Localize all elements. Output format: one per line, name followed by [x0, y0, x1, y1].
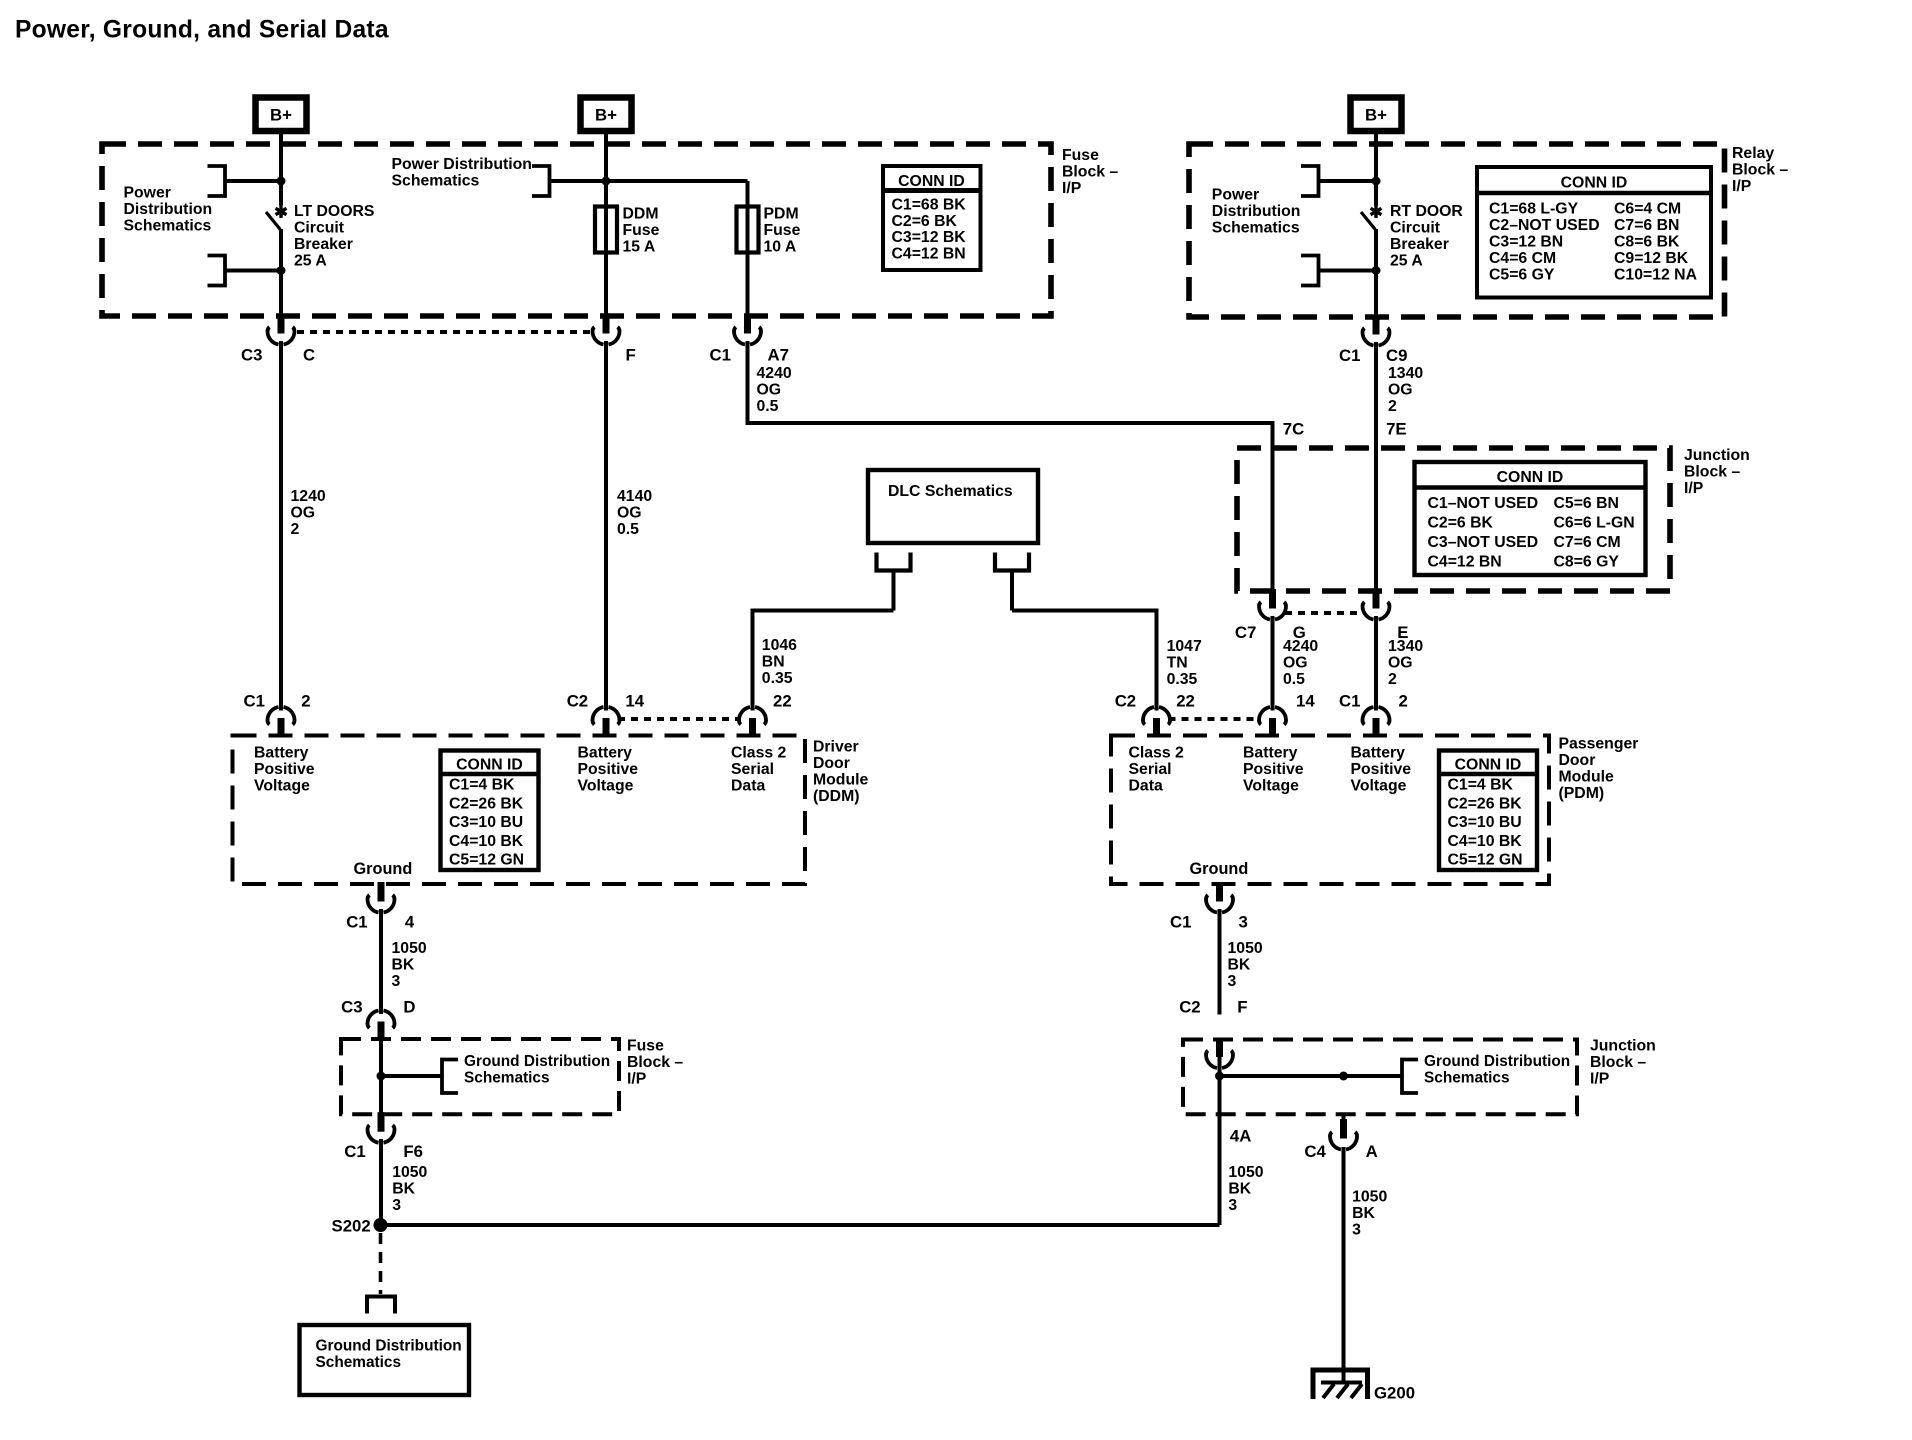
svg-text:PowerDistributionSchematics: PowerDistributionSchematics — [1212, 187, 1301, 237]
node DDM fuse feed junction — [602, 177, 611, 186]
connector C1/2 into DDM battery positive — [267, 707, 294, 738]
wire tap to ground distribution bracket — [381, 1074, 442, 1078]
node breaker top junction — [277, 177, 286, 186]
connector C1/A7 at fuse block (PDM fuse output) — [734, 314, 761, 345]
connector C2/14 into DDM battery positive — [592, 707, 619, 738]
ground G200 symbol — [1313, 1370, 1368, 1399]
wire through junction block (ground) — [1218, 1040, 1222, 1226]
fuse PDM 10A — [737, 207, 759, 253]
svg-text:C2: C2 — [1179, 998, 1200, 1017]
svg-text:C5=6 BNC6=6 L-GNC7=6 CMC8=6 GY: C5=6 BNC6=6 L-GNC7=6 CMC8=6 GY — [1554, 495, 1635, 571]
svg-text:G200: G200 — [1374, 1384, 1415, 1403]
connector C1/2 into PDM battery positive — [1362, 707, 1389, 738]
wire B+2 down through DDM fuse — [604, 131, 608, 316]
wire circuit 4140 from F to DDM — [604, 341, 608, 711]
svg-text:F: F — [1237, 998, 1247, 1017]
connector C2/F into junction block (ground) — [1206, 1038, 1233, 1069]
B+ terminal 1 (LT doors feed) — [256, 98, 307, 132]
svg-text:C1: C1 — [1339, 346, 1360, 365]
svg-text:PassengerDoorModule(PDM): PassengerDoorModule(PDM) — [1559, 736, 1639, 803]
svg-text:7E: 7E — [1386, 420, 1407, 439]
svg-text:S202: S202 — [332, 1217, 371, 1236]
wire S202 bus to PDM ground leg — [381, 1223, 1220, 1227]
connector 14 into PDM battery positive — [1259, 707, 1286, 738]
svg-text:1050BK3: 1050BK3 — [392, 940, 427, 990]
svg-text:1240OG2: 1240OG2 — [291, 488, 326, 538]
dotted connector tie G to E — [1285, 611, 1364, 615]
svg-text:FuseBlock –I/P: FuseBlock –I/P — [1062, 147, 1118, 197]
node breaker bottom junction — [277, 266, 286, 275]
svg-text:DLC Schematics: DLC Schematics — [888, 483, 1013, 500]
wire bracket to breaker bottom node — [225, 269, 281, 273]
svg-text:C7: C7 — [1235, 623, 1256, 642]
svg-text:4A: 4A — [1230, 1127, 1251, 1146]
wire B+3 down into relay block — [1374, 131, 1378, 206]
svg-text:1046BN0.35: 1046BN0.35 — [762, 637, 797, 687]
svg-text:BatteryPositiveVoltage: BatteryPositiveVoltage — [1243, 745, 1304, 795]
DLC Schematics box — [868, 470, 1038, 543]
fuse block I/P dashed enclosure (bottom left) — [341, 1039, 619, 1114]
svg-text:3: 3 — [1239, 913, 1248, 932]
wire circuit 1240 from C to DDM — [279, 341, 283, 711]
off-page bracket (power distribution, middle) — [532, 166, 550, 196]
svg-text:1050BK3: 1050BK3 — [1352, 1189, 1387, 1239]
svg-text:BatteryPositiveVoltage: BatteryPositiveVoltage — [1351, 745, 1412, 795]
connector C2/22 into PDM class 2 serial data — [1143, 707, 1170, 738]
connector 22 into DDM class 2 serial data — [739, 707, 766, 738]
dotted connector tie 22 to 14 (PDM) — [1169, 717, 1262, 721]
wire DLC left lead down — [892, 571, 896, 611]
svg-text:Ground DistributionSchematics: Ground DistributionSchematics — [316, 1338, 462, 1372]
svg-text:A: A — [1366, 1142, 1378, 1161]
svg-text:JunctionBlock –I/P: JunctionBlock –I/P — [1590, 1038, 1656, 1088]
wire circuit 1050 DDM ground down — [379, 909, 383, 1014]
svg-text:C1: C1 — [244, 692, 265, 711]
wire circuit 1047 horizontal — [1012, 609, 1157, 613]
wire through fuse block (ground) — [379, 1039, 383, 1114]
wire circuit 1050 PDM ground down — [1218, 909, 1222, 1015]
off-page stub to ground distribution schematics — [367, 1297, 395, 1314]
circuit breaker LT DOORS 25A - blade — [266, 212, 280, 230]
svg-text:LT DOORSCircuitBreaker25 A: LT DOORSCircuitBreaker25 A — [294, 203, 374, 270]
dotted connector tie 14 to 22 (DDM) — [618, 717, 741, 721]
svg-text:A7: A7 — [768, 346, 789, 365]
CONN ID table (fuse block I/P) — [883, 166, 981, 270]
connector C1/C9 at relay block (RT door circuit) — [1362, 315, 1389, 346]
CONN ID table (DDM) — [441, 751, 539, 871]
svg-text:14: 14 — [1296, 692, 1315, 711]
fuse DDM 15A — [595, 207, 617, 253]
node RT breaker top junction — [1372, 177, 1381, 186]
DLC left receptacle bracket — [877, 553, 911, 571]
svg-text:C1: C1 — [344, 1142, 365, 1161]
svg-text:Ground DistributionSchematics: Ground DistributionSchematics — [464, 1053, 610, 1087]
wire circuit 1340 E to PDM — [1374, 616, 1378, 711]
node RT breaker bottom junction — [1372, 266, 1381, 275]
off-page bracket ground distribution (bottom left) — [442, 1060, 458, 1094]
svg-text:1340OG2: 1340OG2 — [1388, 365, 1423, 415]
svg-text:4240OG0.5: 4240OG0.5 — [1283, 638, 1318, 688]
svg-text:FuseBlock –I/P: FuseBlock –I/P — [627, 1038, 683, 1088]
wire circuit 1050 to G200 — [1342, 1147, 1346, 1383]
svg-text:C9: C9 — [1386, 346, 1407, 365]
svg-text:Ground: Ground — [354, 860, 413, 878]
svg-text:C2: C2 — [1115, 692, 1136, 711]
svg-text:C1: C1 — [1170, 913, 1191, 932]
wire circuit 1046 down to DDM class 2 — [751, 609, 755, 711]
svg-text:C3: C3 — [341, 998, 362, 1017]
svg-text:CONN ID: CONN ID — [1561, 175, 1628, 192]
svg-text:CONN ID: CONN ID — [898, 173, 965, 190]
svg-text:1340OG2: 1340OG2 — [1388, 638, 1423, 688]
svg-text:DDMFuse15 A: DDMFuse15 A — [623, 206, 660, 256]
svg-text:22: 22 — [1176, 692, 1195, 711]
svg-text:4240OG0.5: 4240OG0.5 — [757, 365, 792, 415]
wire PDM fuse feed down — [746, 181, 750, 316]
svg-text:C2: C2 — [567, 692, 588, 711]
svg-text:4140OG0.5: 4140OG0.5 — [617, 488, 652, 538]
svg-text:C3: C3 — [241, 346, 262, 365]
wire bracket to DDM/PDM fuse feeds — [550, 179, 748, 183]
connector E at junction block — [1362, 589, 1389, 620]
wire circuit 4240 down from A7 — [746, 341, 750, 423]
svg-text:C6=4 CMC7=6 BNC8=6 BKC9=12 BKC: C6=4 CMC7=6 BNC8=6 BKC9=12 BKC10=12 NA — [1614, 201, 1697, 284]
node junction block ground tap left — [1215, 1072, 1224, 1081]
svg-text:1050BK3: 1050BK3 — [392, 1164, 427, 1214]
svg-text:C1: C1 — [346, 913, 367, 932]
wire B+1 down into fuse block — [279, 131, 283, 206]
svg-text:F: F — [626, 346, 636, 365]
junction block I/P dashed enclosure (middle right) — [1237, 448, 1670, 591]
svg-text:CONN ID: CONN ID — [1497, 469, 1564, 486]
svg-text:C4: C4 — [1304, 1142, 1326, 1161]
svg-text:B+: B+ — [270, 106, 292, 125]
B+ terminal 3 (RT door feed) — [1351, 98, 1402, 132]
connector C4/A out of junction block — [1330, 1119, 1357, 1150]
svg-text:BatteryPositiveVoltage: BatteryPositiveVoltage — [578, 745, 639, 795]
wire circuit 1340 down to junction block (7E) — [1374, 342, 1378, 591]
connector C3/C at fuse block (LT doors circuit) — [267, 314, 294, 345]
wire circuit 4240 G to PDM — [1271, 616, 1275, 711]
svg-text:B+: B+ — [595, 106, 617, 125]
svg-text:C1: C1 — [1339, 692, 1360, 711]
dashed wire S202 to ground distribution — [379, 1233, 383, 1294]
off-page bracket lower (right box) — [1301, 256, 1319, 286]
svg-text:PDMFuse10 A: PDMFuse10 A — [764, 206, 801, 256]
circuit breaker LT DOORS 25A - contact star — [276, 205, 287, 218]
junction block I/P dashed enclosure (bottom right) — [1183, 1040, 1577, 1115]
node junction block ground tap right — [1339, 1072, 1348, 1081]
splice S202 — [374, 1218, 388, 1232]
connector C1/F6 out of fuse block — [367, 1112, 394, 1143]
svg-text:RT DOORCircuitBreaker25 A: RT DOORCircuitBreaker25 A — [1390, 203, 1463, 270]
wire bracket to breaker top node — [225, 179, 281, 183]
svg-text:Power DistributionSchematics: Power DistributionSchematics — [392, 156, 532, 190]
svg-text:C1=4 BKC2=26 BKC3=10 BUC4=10 B: C1=4 BKC2=26 BKC3=10 BUC4=10 BKC5=12 GN — [1448, 777, 1523, 869]
wire circuit 4240 drop into junction block (7C) — [1271, 421, 1275, 591]
svg-text:C1: C1 — [710, 346, 731, 365]
svg-text:C1=68 L-GYC2–NOT USEDC3=12 BNC: C1=68 L-GYC2–NOT USEDC3=12 BNC4=6 CMC5=6… — [1489, 201, 1600, 284]
svg-text:DriverDoorModule(DDM): DriverDoorModule(DDM) — [813, 739, 868, 806]
wire circuit 1050 to S202 — [379, 1139, 383, 1222]
wire bracket to RT breaker bottom node — [1319, 269, 1377, 273]
wire RT breaker to bottom node — [1374, 229, 1378, 317]
off-page bracket upper (right box) — [1301, 166, 1319, 196]
connector C1/3 PDM ground — [1206, 882, 1233, 913]
circuit breaker RT DOOR 25A - contact star — [1371, 205, 1382, 218]
svg-text:1050BK3: 1050BK3 — [1228, 940, 1263, 990]
svg-text:Ground: Ground — [1190, 860, 1249, 878]
CONN ID table (PDM) — [1439, 751, 1537, 871]
svg-text:C: C — [303, 346, 315, 365]
svg-text:Ground DistributionSchematics: Ground DistributionSchematics — [1424, 1053, 1570, 1087]
svg-text:F6: F6 — [403, 1142, 423, 1161]
driver door module dashed enclosure (DDM) — [233, 736, 806, 885]
svg-text:JunctionBlock –I/P: JunctionBlock –I/P — [1684, 447, 1750, 497]
relay block I/P dashed enclosure (top right) — [1189, 144, 1725, 317]
wire circuit 4240 horizontal run to junction block — [746, 421, 1273, 425]
svg-text:C1–NOT USEDC2=6 BKC3–NOT USEDC: C1–NOT USEDC2=6 BKC3–NOT USEDC4=12 BN — [1428, 495, 1539, 571]
svg-text:C1=68 BKC2=6 BKC3=12 BKC4=12 B: C1=68 BKC2=6 BKC3=12 BKC4=12 BN — [892, 197, 967, 263]
Ground Distribution Schematics box (bottom left) — [300, 1325, 470, 1395]
svg-text:CONN ID: CONN ID — [456, 757, 523, 774]
passenger door module dashed enclosure (PDM) — [1111, 736, 1549, 885]
svg-text:Power, Ground, and Serial Data: Power, Ground, and Serial Data — [15, 17, 389, 44]
wire breaker to bottom node — [279, 229, 283, 316]
svg-text:1050BK3: 1050BK3 — [1228, 1164, 1263, 1214]
svg-text:B+: B+ — [1365, 106, 1387, 125]
svg-text:RelayBlock –I/P: RelayBlock –I/P — [1732, 145, 1788, 195]
CONN ID table (relay block I/P) — [1477, 167, 1711, 298]
off-page bracket lower (power distribution, left box) — [208, 256, 226, 286]
wire DLC right lead down — [1010, 571, 1014, 611]
svg-text:22: 22 — [773, 692, 792, 711]
svg-text:14: 14 — [625, 692, 644, 711]
svg-text:4: 4 — [405, 913, 415, 932]
B+ terminal 2 (DDM fuse feed) — [581, 98, 632, 132]
off-page bracket ground distribution (bottom right) — [1402, 1060, 1418, 1094]
wire circuit 1046 horizontal — [753, 609, 894, 613]
svg-text:D: D — [403, 998, 415, 1017]
svg-text:CONN ID: CONN ID — [1455, 757, 1522, 774]
connector C1/4 DDM ground — [367, 882, 394, 913]
connector C3/D into fuse block (ground) — [367, 1011, 394, 1042]
DLC right receptacle bracket — [995, 553, 1029, 571]
node ground distribution tap — [377, 1072, 386, 1081]
dotted connector tie C to F — [297, 330, 594, 334]
svg-text:Class 2SerialData: Class 2SerialData — [1129, 745, 1185, 795]
svg-text:PowerDistributionSchematics: PowerDistributionSchematics — [124, 185, 213, 235]
wire bracket to RT breaker top node — [1319, 179, 1377, 183]
svg-text:1047TN0.35: 1047TN0.35 — [1167, 638, 1202, 688]
connector F at fuse block (DDM fuse output) — [592, 314, 619, 345]
svg-text:BatteryPositiveVoltage: BatteryPositiveVoltage — [254, 745, 315, 795]
svg-text:C1=4 BKC2=26 BKC3=10 BUC4=10 B: C1=4 BKC2=26 BKC3=10 BUC4=10 BKC5=12 GN — [449, 777, 524, 869]
svg-text:2: 2 — [301, 692, 310, 711]
CONN ID table (junction block I/P) — [1415, 462, 1646, 575]
off-page bracket upper (power distribution, left box) — [208, 166, 226, 196]
connector C7/G at junction block — [1259, 589, 1286, 620]
circuit breaker RT DOOR 25A - blade — [1361, 212, 1375, 230]
svg-text:7C: 7C — [1283, 420, 1304, 439]
svg-text:Class 2SerialData: Class 2SerialData — [731, 745, 787, 795]
wire circuit 1047 down to PDM class 2 — [1155, 609, 1159, 711]
wire tap to ground distribution bracket (bottom right) — [1220, 1074, 1403, 1078]
fuse block I/P dashed enclosure (top left) — [102, 144, 1051, 316]
svg-text:2: 2 — [1399, 692, 1408, 711]
wire stub junction block to C4 connector — [1342, 1114, 1346, 1122]
